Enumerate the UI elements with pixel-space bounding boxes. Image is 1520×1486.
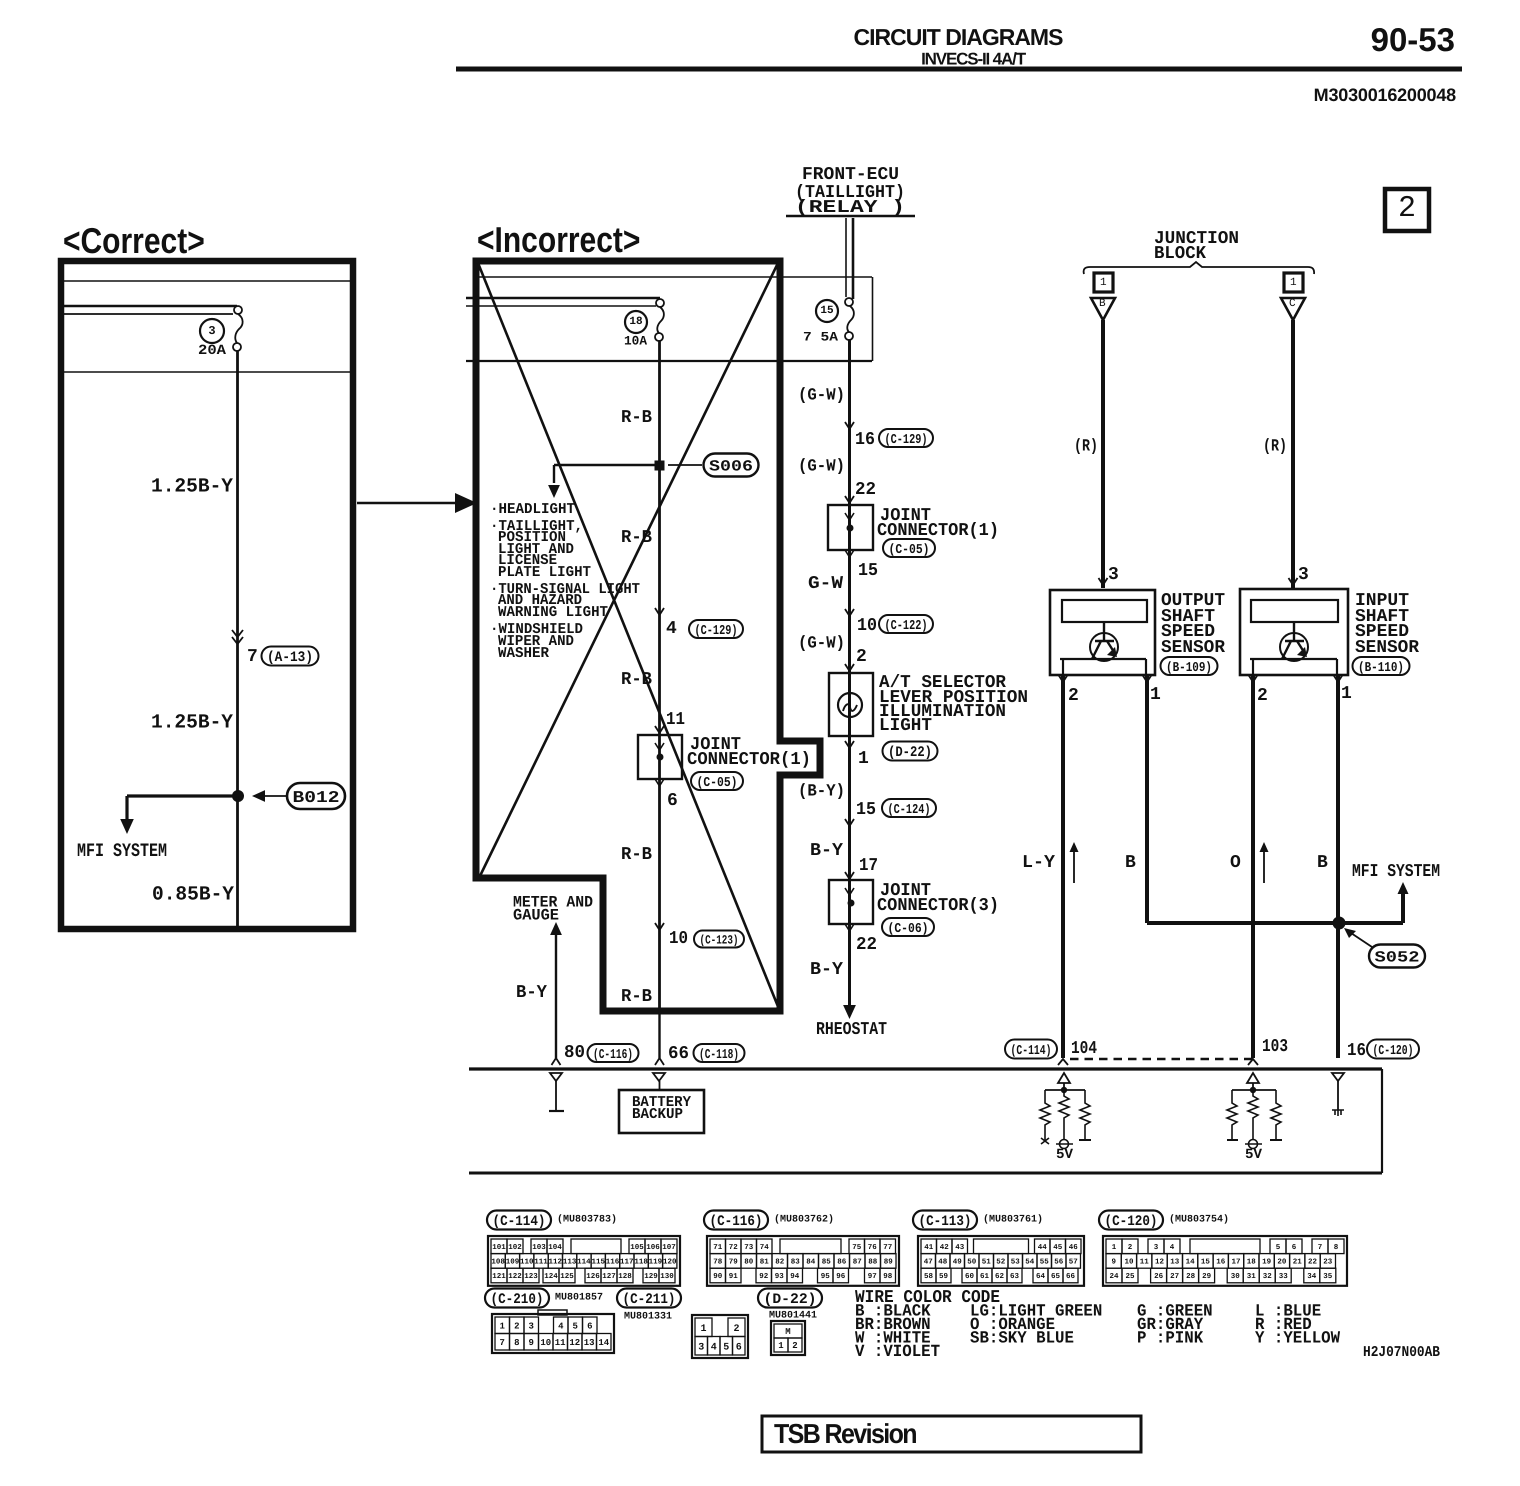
svg-text:41: 41	[924, 1244, 934, 1252]
svg-text:20: 20	[1277, 1258, 1287, 1267]
svg-text:112: 112	[549, 1258, 563, 1267]
correct bus bar	[64, 306, 242, 314]
svg-text:1: 1	[1150, 685, 1161, 705]
svg-text:(C-114): (C-114)	[1011, 1044, 1052, 1059]
svg-text:59: 59	[939, 1272, 949, 1281]
svg-text:15: 15	[820, 305, 834, 317]
load list text	[490, 501, 640, 662]
svg-text:1: 1	[858, 749, 869, 769]
wire B-Y to meter and gauge	[550, 922, 562, 1065]
svg-text:8: 8	[514, 1338, 519, 1348]
svg-text:93: 93	[775, 1272, 785, 1281]
svg-text:13: 13	[1170, 1258, 1180, 1267]
svg-text:2: 2	[792, 1341, 797, 1351]
svg-text:RHEOSTAT: RHEOSTAT	[816, 1020, 887, 1040]
svg-text:12: 12	[569, 1338, 580, 1348]
svg-text:2: 2	[733, 1324, 739, 1335]
svg-text:26: 26	[1154, 1272, 1164, 1281]
svg-text:2: 2	[1398, 192, 1416, 226]
svg-text:2: 2	[1128, 1243, 1133, 1252]
svg-text:R-B: R-B	[621, 670, 652, 690]
wire chevron	[845, 872, 854, 879]
svg-text:2: 2	[1068, 686, 1079, 706]
junction block terminal 1 left	[1094, 273, 1113, 292]
svg-text:(G-W): (G-W)	[798, 386, 845, 405]
svg-text:104: 104	[1071, 1039, 1097, 1059]
svg-text:76: 76	[868, 1243, 878, 1252]
svg-text:61: 61	[980, 1272, 990, 1281]
svg-text:FRONT-ECU: FRONT-ECU	[802, 165, 899, 185]
svg-text:(MU803783): (MU803783)	[557, 1213, 617, 1225]
pin 66 connector C-118	[668, 1044, 745, 1064]
svg-text:(MU803754): (MU803754)	[1169, 1213, 1229, 1225]
svg-text:105: 105	[630, 1243, 644, 1252]
svg-text:(B-Y): (B-Y)	[798, 782, 845, 801]
svg-text:82: 82	[775, 1258, 785, 1267]
svg-text:111: 111	[534, 1259, 548, 1267]
svg-text:(C-122): (C-122)	[885, 619, 928, 634]
svg-text:(C-06): (C-06)	[888, 922, 929, 937]
svg-text:3: 3	[528, 1322, 533, 1332]
svg-text:B012: B012	[293, 788, 340, 807]
svg-text:3: 3	[1154, 1243, 1159, 1252]
svg-text:28: 28	[1186, 1272, 1196, 1281]
svg-text:(C-120): (C-120)	[1373, 1044, 1414, 1059]
svg-text:15: 15	[1201, 1259, 1211, 1267]
svg-text:46: 46	[1069, 1243, 1079, 1252]
svg-text:4: 4	[666, 619, 677, 639]
svg-text:78: 78	[713, 1258, 723, 1267]
battery backup block	[619, 1073, 704, 1133]
svg-text:90-53: 90-53	[1371, 21, 1455, 58]
svg-text:SENSOR: SENSOR	[1355, 638, 1419, 658]
correct box inner top line	[64, 280, 350, 282]
svg-text:S006: S006	[709, 458, 753, 476]
svg-text:127: 127	[602, 1272, 616, 1281]
svg-text:32: 32	[1263, 1272, 1273, 1281]
joint connector (3) text	[877, 881, 999, 916]
svg-text:90: 90	[713, 1272, 723, 1281]
svg-text:85: 85	[822, 1258, 832, 1267]
svg-text:89: 89	[884, 1258, 894, 1267]
svg-text:51: 51	[982, 1259, 992, 1267]
incorrect box outline with notch	[476, 261, 820, 1011]
svg-text:18: 18	[1247, 1258, 1257, 1267]
svg-text:15: 15	[858, 561, 878, 581]
svg-text:120: 120	[663, 1258, 677, 1267]
fuse 3 20A	[198, 314, 243, 359]
svg-text:97: 97	[868, 1272, 877, 1281]
A/T selector light text	[879, 673, 1028, 736]
svg-text:24: 24	[1109, 1272, 1119, 1281]
wire G-W vertical main	[848, 340, 851, 1007]
wire direction chevrons	[232, 630, 243, 644]
connector B-109	[1161, 657, 1218, 676]
svg-text:88: 88	[868, 1258, 878, 1267]
svg-text:48: 48	[938, 1258, 948, 1267]
svg-text:128: 128	[618, 1272, 632, 1281]
wire below junction	[236, 796, 239, 926]
svg-text:1.25B-Y: 1.25B-Y	[151, 476, 233, 499]
svg-text:B: B	[1099, 298, 1106, 310]
wire chevron	[845, 496, 854, 503]
L-Y direction arrow	[1070, 842, 1079, 883]
svg-text:75: 75	[852, 1244, 862, 1252]
svg-text:52: 52	[996, 1258, 1006, 1267]
A/T selector lever position illumination light	[829, 673, 873, 736]
svg-text:WASHER: WASHER	[498, 645, 549, 662]
svg-text:MU801857: MU801857	[555, 1292, 603, 1303]
wire end chevrons at ECU	[1058, 1059, 1258, 1065]
wire (R) left	[1101, 320, 1105, 588]
svg-text:58: 58	[924, 1272, 934, 1281]
pin 16 connector C-120	[1347, 1040, 1419, 1062]
svg-text:74: 74	[760, 1244, 770, 1252]
svg-text:7 5A: 7 5A	[803, 330, 838, 345]
connector C-116 pinout	[704, 1211, 899, 1286]
svg-text:H2J07N00AB: H2J07N00AB	[1363, 1344, 1440, 1361]
svg-text:C: C	[1289, 298, 1296, 310]
svg-text:(C-124): (C-124)	[888, 803, 931, 818]
pin 10 connector C-123	[669, 929, 744, 949]
wire R-B below box to ECU	[655, 1011, 664, 1065]
ECU pin 16 ground lead	[1332, 1073, 1344, 1116]
svg-text:(G-W): (G-W)	[798, 457, 845, 476]
fuse 15 7.5A	[803, 298, 854, 345]
svg-text:53: 53	[1011, 1258, 1021, 1267]
svg-text:87: 87	[853, 1258, 862, 1267]
svg-text:(C-210): (C-210)	[491, 1292, 544, 1308]
svg-text:54: 54	[1025, 1259, 1035, 1267]
joint connector (3)	[829, 880, 873, 931]
svg-text:(C-113): (C-113)	[919, 1214, 972, 1230]
pin 80 connector C-116	[564, 1043, 639, 1063]
svg-text:(D-22): (D-22)	[764, 1292, 817, 1308]
svg-text:14: 14	[1186, 1259, 1196, 1267]
TSB Revision box	[762, 1416, 1141, 1452]
svg-text:22: 22	[855, 480, 876, 500]
svg-text:27: 27	[1170, 1272, 1179, 1281]
page marker box 2	[1385, 189, 1429, 231]
svg-text:2: 2	[514, 1322, 519, 1332]
svg-text:MU801331: MU801331	[624, 1311, 672, 1322]
connector B-110	[1353, 657, 1410, 676]
svg-text:19: 19	[1262, 1258, 1272, 1267]
svg-text:(MU803761): (MU803761)	[983, 1213, 1043, 1225]
svg-text:(R): (R)	[1263, 437, 1287, 456]
arrow to rheostat	[843, 1005, 856, 1019]
svg-text:5V: 5V	[1245, 1147, 1263, 1163]
svg-text:79: 79	[729, 1258, 739, 1267]
svg-text:3: 3	[1108, 565, 1119, 585]
node S052 junction dot	[1333, 917, 1346, 930]
svg-text:5: 5	[572, 1322, 577, 1332]
svg-text:M3030016200048: M3030016200048	[1314, 85, 1457, 105]
svg-text:71: 71	[713, 1244, 723, 1252]
input sensor pin chevrons	[1249, 675, 1343, 682]
svg-text:(C-123): (C-123)	[700, 934, 739, 948]
svg-text:BLOCK: BLOCK	[1154, 244, 1206, 264]
input shaft speed sensor B-110	[1240, 589, 1348, 675]
svg-text:11: 11	[666, 710, 685, 730]
svg-text:PLATE LIGHT: PLATE LIGHT	[498, 564, 591, 581]
svg-text:42: 42	[940, 1243, 950, 1252]
wire chevron	[845, 609, 854, 616]
fuse 18 10A	[624, 307, 664, 349]
svg-text:72: 72	[729, 1243, 739, 1252]
wire 1.25B-Y vertical	[236, 351, 239, 796]
svg-text:·HEADLIGHT: ·HEADLIGHT	[490, 501, 575, 518]
svg-text:125: 125	[560, 1272, 574, 1281]
taillight relay band bottom line	[466, 360, 872, 362]
svg-text:B: B	[1125, 853, 1136, 873]
svg-text:103: 103	[532, 1243, 546, 1252]
dashed harness line	[1070, 1058, 1253, 1060]
svg-text:2: 2	[856, 647, 867, 667]
svg-text:3: 3	[698, 1342, 704, 1353]
svg-text:MFI SYSTEM: MFI SYSTEM	[1352, 862, 1440, 882]
svg-text:CONNECTOR(3): CONNECTOR(3)	[877, 896, 999, 916]
svg-text:66: 66	[668, 1044, 689, 1064]
junction block terminal 1 right	[1284, 273, 1303, 292]
svg-text:LIGHT: LIGHT	[879, 716, 932, 736]
svg-text:(C-116): (C-116)	[710, 1214, 763, 1230]
svg-text:102: 102	[508, 1243, 522, 1252]
joint connector (1) text	[877, 506, 999, 541]
svg-text:25: 25	[1125, 1272, 1135, 1281]
connector C-211 pinout	[617, 1289, 748, 1359]
joint connector (1) incorrect box	[638, 735, 682, 786]
junction block bracket	[1084, 262, 1315, 274]
svg-text:L-Y: L-Y	[1022, 853, 1055, 873]
svg-text:Y :YELLOW: Y :YELLOW	[1255, 1330, 1341, 1349]
wire chevron	[845, 741, 854, 748]
wire R-B vertical	[658, 341, 661, 1011]
cross-out diagonal top-left to bottom-right	[478, 263, 779, 1009]
connector C-114 oval	[1005, 1040, 1057, 1059]
svg-text:43: 43	[955, 1243, 965, 1252]
svg-text:91: 91	[729, 1272, 739, 1281]
pin 16 connector C-129	[855, 429, 933, 450]
svg-text:13: 13	[584, 1338, 595, 1348]
svg-text:1: 1	[1290, 277, 1297, 289]
svg-text:94: 94	[790, 1272, 800, 1281]
splice S052 callout	[1344, 928, 1425, 968]
svg-text:B-Y: B-Y	[516, 983, 547, 1003]
svg-text:MU801441: MU801441	[769, 1310, 817, 1321]
label METER AND GAUGE	[513, 894, 593, 925]
svg-text:(C-129): (C-129)	[695, 624, 738, 639]
header rule	[456, 67, 1462, 72]
svg-text:1: 1	[700, 1324, 706, 1335]
svg-text:84: 84	[806, 1258, 816, 1267]
relay output double wire	[846, 218, 853, 299]
wire (R) right	[1291, 320, 1295, 588]
svg-text:73: 73	[744, 1243, 754, 1252]
arrow from correct box to incorrect box	[357, 493, 477, 513]
svg-text:(C-211): (C-211)	[623, 1292, 676, 1308]
connector C-05	[883, 539, 935, 558]
svg-text:7: 7	[499, 1338, 504, 1348]
svg-text:55: 55	[1040, 1259, 1050, 1267]
svg-text:60: 60	[965, 1272, 975, 1281]
svg-text:106: 106	[646, 1243, 660, 1252]
svg-text:V :VIOLET: V :VIOLET	[855, 1343, 940, 1362]
svg-text:23: 23	[1323, 1258, 1333, 1267]
wire to MFI system	[1339, 882, 1409, 923]
svg-text:1: 1	[1112, 1244, 1117, 1252]
wire chevron	[655, 726, 664, 733]
svg-text:(C-05): (C-05)	[697, 776, 738, 791]
svg-text:21: 21	[1293, 1258, 1303, 1267]
svg-text:49: 49	[953, 1258, 963, 1267]
connector C-06	[882, 918, 934, 937]
svg-text:81: 81	[760, 1258, 770, 1267]
svg-text:95: 95	[821, 1272, 831, 1281]
svg-text:113: 113	[563, 1258, 577, 1267]
svg-text:10A: 10A	[624, 334, 647, 349]
svg-text:119: 119	[649, 1258, 663, 1267]
svg-text:R-B: R-B	[621, 987, 652, 1007]
input sensor text	[1355, 591, 1419, 658]
svg-text:33: 33	[1279, 1272, 1289, 1281]
output shaft speed sensor B-109	[1050, 590, 1155, 675]
svg-text:92: 92	[759, 1272, 769, 1281]
connector D-22 pinout	[758, 1289, 822, 1356]
svg-text:10: 10	[540, 1338, 551, 1348]
node S006 branch	[554, 461, 702, 470]
svg-text:63: 63	[1010, 1272, 1020, 1281]
svg-text:0.85B-Y: 0.85B-Y	[152, 884, 234, 907]
svg-text:16: 16	[1347, 1041, 1366, 1061]
svg-text:130: 130	[660, 1272, 674, 1281]
svg-text:(R): (R)	[1074, 437, 1098, 456]
svg-text:5V: 5V	[1056, 1147, 1074, 1163]
svg-text:S052: S052	[1375, 949, 1420, 967]
svg-text:30: 30	[1231, 1272, 1241, 1281]
svg-text:64: 64	[1036, 1272, 1046, 1281]
pin 15 connector C-124	[856, 799, 936, 820]
svg-text:115: 115	[591, 1259, 605, 1267]
svg-text:INVECS-II 4A/T: INVECS-II 4A/T	[921, 49, 1027, 68]
svg-text:M: M	[785, 1327, 790, 1337]
svg-text:2: 2	[1257, 686, 1268, 706]
svg-text:12: 12	[1155, 1258, 1165, 1267]
svg-text:5: 5	[1276, 1244, 1281, 1252]
wire L-Y vertical	[1061, 675, 1065, 1058]
node B012 junction dot	[232, 790, 244, 802]
splice B012 callout	[252, 783, 345, 809]
svg-text:44: 44	[1038, 1244, 1048, 1252]
svg-text:15: 15	[856, 800, 876, 820]
correct box lower band line	[64, 371, 350, 373]
svg-text:B-Y: B-Y	[810, 960, 843, 980]
svg-text:80: 80	[564, 1043, 585, 1063]
connector C-05 incorrect	[691, 772, 743, 791]
svg-text:(C-116): (C-116)	[593, 1048, 633, 1063]
wire chevron	[655, 923, 664, 930]
cross-out diagonal top-right to bottom-left	[480, 263, 778, 876]
svg-text:10: 10	[1124, 1258, 1134, 1267]
output sensor pin chevrons	[1059, 675, 1152, 682]
branch arrow to load list	[548, 465, 560, 498]
svg-text:B-Y: B-Y	[810, 841, 843, 861]
svg-text:9: 9	[528, 1338, 533, 1348]
svg-text:GAUGE: GAUGE	[513, 907, 559, 925]
pull-up resistor network 104	[1040, 1073, 1091, 1149]
svg-text:29: 29	[1202, 1272, 1212, 1281]
svg-text:20A: 20A	[198, 343, 227, 359]
svg-text:77: 77	[883, 1244, 892, 1252]
label JUNCTION BLOCK	[1154, 229, 1239, 264]
connector C-120 pinout	[1099, 1211, 1347, 1286]
svg-text:124: 124	[544, 1272, 558, 1281]
svg-text:P :PINK: P :PINK	[1137, 1330, 1204, 1349]
svg-text:(C-114): (C-114)	[493, 1214, 546, 1230]
svg-text:4: 4	[1170, 1244, 1175, 1252]
junction block pin B triangle	[1091, 298, 1115, 320]
svg-text:57: 57	[1069, 1259, 1078, 1267]
wire chevron	[845, 819, 854, 826]
svg-text:14: 14	[598, 1338, 609, 1348]
svg-text:R-B: R-B	[621, 528, 652, 548]
connector C-114 pinout	[487, 1211, 680, 1286]
fuse 15 box	[872, 277, 874, 361]
svg-text:98: 98	[883, 1272, 893, 1281]
svg-text:10: 10	[669, 929, 688, 949]
svg-text:50: 50	[967, 1258, 977, 1267]
connector C-113 pinout	[913, 1211, 1084, 1286]
svg-text:110: 110	[520, 1258, 534, 1267]
svg-text:1.25B-Y: 1.25B-Y	[151, 712, 233, 735]
svg-text:18: 18	[629, 316, 643, 328]
svg-text:65: 65	[1051, 1272, 1061, 1281]
svg-text:62: 62	[995, 1272, 1005, 1281]
svg-text:11: 11	[555, 1338, 566, 1348]
svg-text:45: 45	[1053, 1244, 1063, 1252]
A/T control unit box	[469, 1069, 1382, 1173]
svg-text:CONNECTOR(1): CONNECTOR(1)	[687, 750, 811, 770]
svg-text:1: 1	[778, 1341, 784, 1351]
connector C-210 pinout	[485, 1289, 614, 1354]
svg-text:(C-129): (C-129)	[885, 433, 928, 448]
junction block pin C triangle	[1281, 298, 1305, 320]
svg-text:35: 35	[1323, 1272, 1333, 1281]
svg-text:B: B	[1317, 853, 1328, 873]
svg-text:(B-110): (B-110)	[1358, 661, 1404, 676]
svg-text:34: 34	[1307, 1272, 1317, 1281]
svg-text:R-B: R-B	[621, 845, 652, 865]
svg-text:16: 16	[855, 430, 875, 450]
svg-text:80: 80	[744, 1258, 754, 1267]
svg-text:3: 3	[208, 324, 215, 338]
svg-text:22: 22	[856, 935, 877, 955]
svg-text:9: 9	[1111, 1258, 1116, 1267]
svg-text:103: 103	[1262, 1037, 1288, 1057]
svg-text:<Incorrect>: <Incorrect>	[477, 221, 640, 261]
svg-text:<Correct>: <Correct>	[63, 222, 205, 262]
svg-text:122: 122	[508, 1272, 522, 1281]
splice S006 callout	[704, 454, 759, 477]
svg-text:11: 11	[1140, 1259, 1150, 1267]
svg-text:16: 16	[1216, 1258, 1226, 1267]
svg-text:101: 101	[492, 1243, 506, 1252]
svg-text:WARNING LIGHT: WARNING LIGHT	[498, 604, 608, 621]
svg-text:22: 22	[1308, 1258, 1318, 1267]
svg-text:5: 5	[723, 1342, 729, 1353]
svg-text:86: 86	[837, 1258, 847, 1267]
svg-text:108: 108	[491, 1258, 505, 1267]
